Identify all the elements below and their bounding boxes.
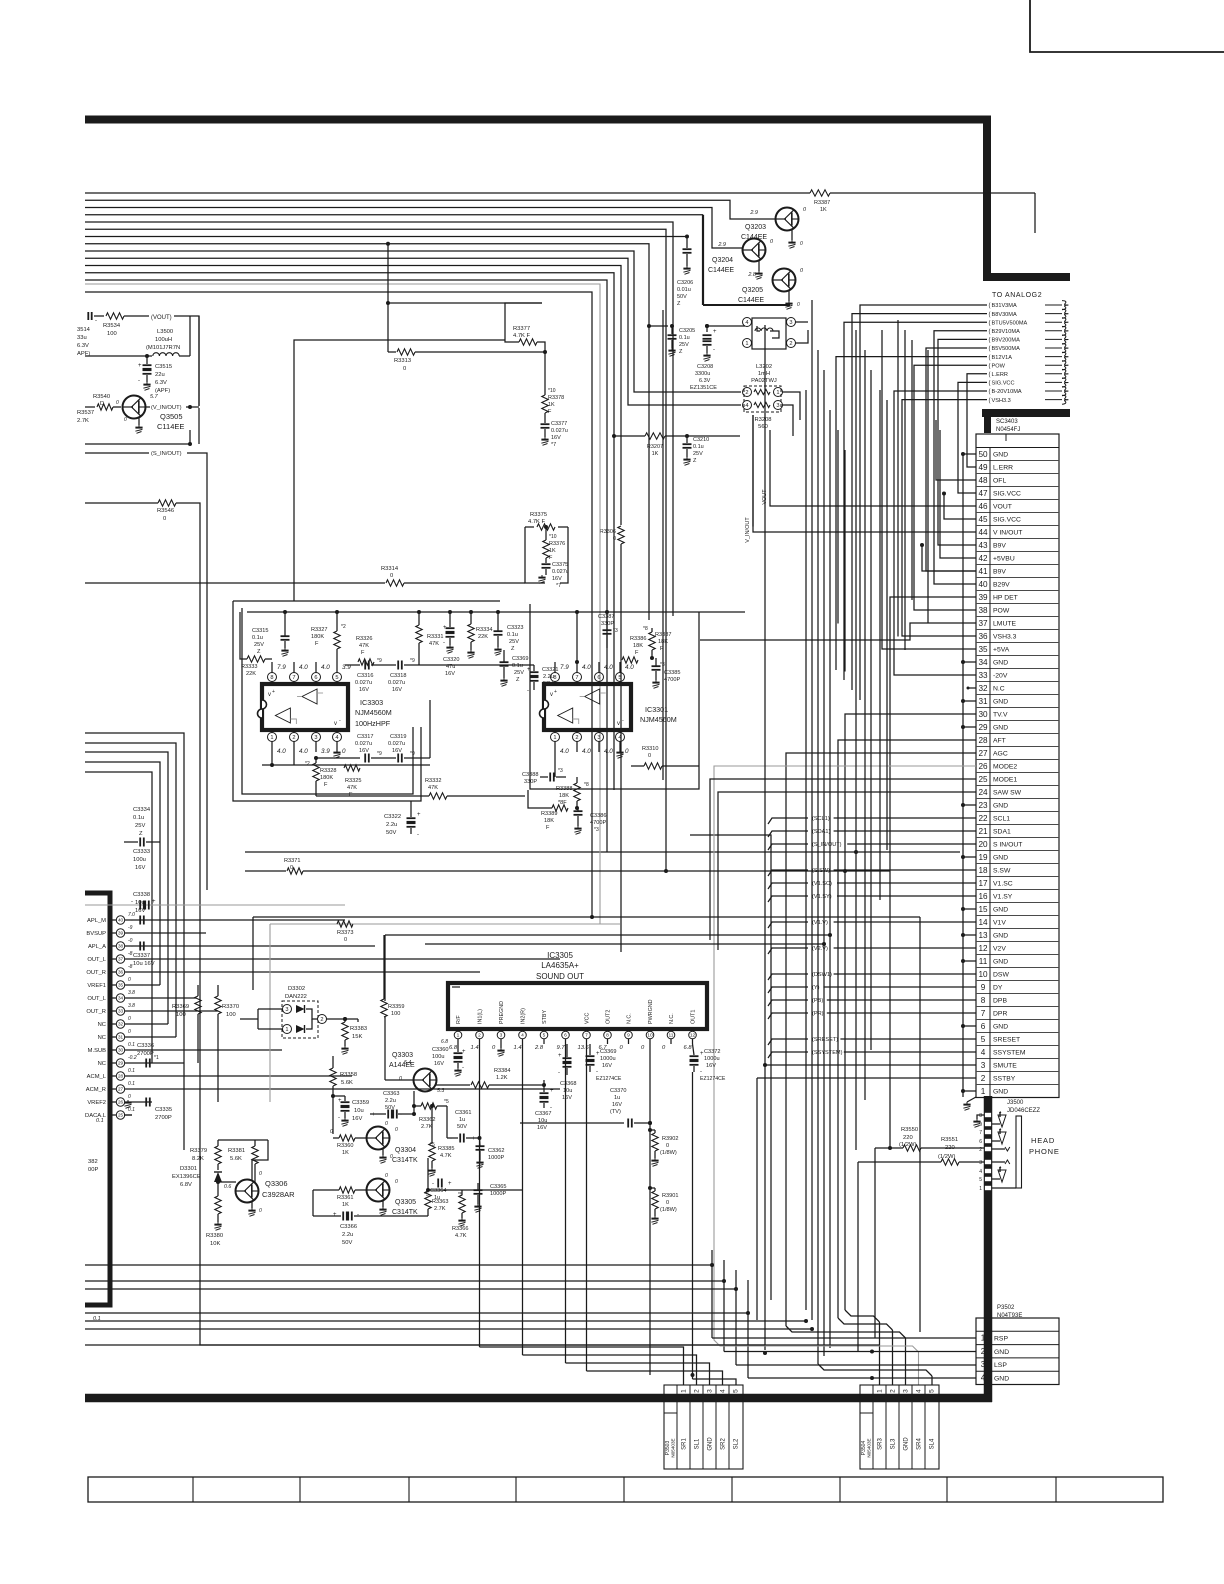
svg-text:42: 42 [978, 554, 988, 563]
svg-text:Z: Z [257, 649, 261, 655]
headphone pin 6 [985, 1138, 992, 1143]
svg-text:(V1.V): (V1.V) [812, 920, 828, 926]
wire pin27 AGC [786, 753, 976, 1326]
svg-text:SL1: SL1 [695, 1438, 701, 1449]
svg-text:25V: 25V [509, 639, 519, 645]
svg-text:VREF2: VREF2 [87, 1100, 106, 1106]
svg-text:B31V3MA: B31V3MA [992, 303, 1017, 309]
svg-text:F: F [660, 646, 664, 652]
transistor Q3303 [414, 1069, 437, 1092]
ground headphone pin8 [977, 1115, 984, 1119]
svg-text:P3502: P3502 [997, 1305, 1015, 1311]
net (V1.SC) to pin 17 [768, 883, 808, 889]
svg-text:SR2: SR2 [721, 1438, 727, 1450]
svg-text:-: - [462, 1065, 464, 1071]
svg-text:1K: 1K [548, 402, 555, 408]
svg-text:SDA1: SDA1 [993, 829, 1011, 836]
svg-text:R3389: R3389 [541, 811, 557, 817]
svg-text:3: 3 [981, 1360, 986, 1369]
ground IC3305 pin3 [500, 1044, 502, 1048]
IC3303 pin 8 [271, 681, 273, 684]
svg-text:220: 220 [945, 1145, 955, 1151]
svg-text:5: 5 [979, 1177, 982, 1183]
svg-text:180K: 180K [320, 775, 333, 781]
svg-text:(: ( [989, 329, 991, 335]
svg-text:HEAD: HEAD [1031, 1136, 1055, 1145]
bus wire 9 (to L3202 pin2) [85, 251, 741, 392]
svg-text:1.4: 1.4 [471, 1045, 479, 1051]
wire pins row [430, 664, 534, 666]
svg-text:2.2u: 2.2u [386, 822, 397, 828]
svg-text:LSP: LSP [994, 1362, 1007, 1369]
svg-text:R3387: R3387 [814, 200, 830, 206]
svg-text:1: 1 [981, 1087, 986, 1096]
net (S.SW) to pin 18 [768, 870, 808, 876]
svg-text:(1/2W): (1/2W) [899, 1142, 916, 1148]
svg-text:28: 28 [978, 736, 988, 745]
svg-text:(1/2W): (1/2W) [938, 1154, 955, 1160]
speaker symbol 3 [992, 1178, 1000, 1180]
svg-text:0.1u: 0.1u [679, 335, 690, 341]
IC3301 pin 2 [576, 730, 578, 733]
svg-text:PREGND: PREGND [499, 1001, 505, 1024]
svg-text:4.0: 4.0 [604, 664, 613, 671]
svg-text:GND: GND [993, 660, 1008, 667]
svg-text:(S_IN/OUT): (S_IN/OUT) [812, 842, 842, 848]
svg-text:*9: *9 [377, 751, 382, 757]
svg-text:R3381: R3381 [228, 1148, 245, 1154]
svg-text:2700P: 2700P [155, 1115, 172, 1121]
svg-text:C3336: C3336 [137, 1043, 154, 1049]
svg-text:3: 3 [314, 735, 317, 741]
svg-text:v: v [268, 692, 271, 698]
wire D3301 to Q3306 [218, 1181, 236, 1183]
svg-text:0: 0 [128, 1029, 131, 1035]
transistor Q3306 [236, 1180, 259, 1203]
wire left feeder 1 [85, 733, 184, 1150]
svg-text:Z: Z [516, 677, 520, 683]
svg-text:N.C: N.C [993, 686, 1005, 693]
svg-text:0: 0 [399, 1076, 402, 1082]
svg-text:-: - [450, 1136, 452, 1142]
wire left feeder 2 [85, 743, 176, 1037]
svg-text:C314TK: C314TK [392, 1209, 418, 1216]
svg-text:8: 8 [270, 675, 273, 681]
svg-text:40: 40 [978, 580, 988, 589]
svg-text:R3314: R3314 [381, 566, 399, 572]
svg-text:*1: *1 [154, 1055, 159, 1061]
net (S_IN/OUT) [85, 452, 149, 454]
transistor Q3304 [367, 1127, 390, 1150]
bus wire 1 (to R3387) [85, 192, 810, 194]
IC3303 pin 4 [336, 730, 338, 733]
svg-text:4700P: 4700P [590, 820, 606, 826]
svg-text:+5VA: +5VA [993, 647, 1010, 654]
wire IC3301 bottom rail bend [690, 835, 771, 1300]
svg-text:32: 32 [118, 1022, 124, 1027]
svg-text:15: 15 [978, 905, 988, 914]
svg-text:DY: DY [993, 985, 1003, 992]
svg-text:-: - [443, 640, 445, 646]
svg-text:7: 7 [575, 675, 578, 681]
svg-text:GND: GND [993, 855, 1008, 862]
svg-text:1u: 1u [434, 1195, 440, 1201]
svg-text:F: F [349, 792, 353, 798]
svg-text:10u: 10u [135, 900, 145, 906]
svg-text:SRESET: SRESET [993, 1037, 1020, 1044]
svg-text:IC3301: IC3301 [645, 705, 668, 714]
svg-text:4.7K F: 4.7K F [528, 519, 546, 525]
svg-text:4.0: 4.0 [604, 748, 613, 755]
svg-text:-20V: -20V [993, 673, 1008, 680]
svg-text:R3366: R3366 [452, 1226, 468, 1232]
svg-text:C3365: C3365 [490, 1184, 506, 1190]
svg-text:B8V30MA: B8V30MA [992, 312, 1017, 318]
svg-text:2.9: 2.9 [717, 242, 726, 248]
svg-text:+: + [558, 1053, 562, 1059]
svg-text:2: 2 [320, 1017, 323, 1023]
IC3301 pin 1 [554, 730, 556, 733]
svg-text:2.7K: 2.7K [434, 1206, 446, 1212]
headphone bracket [992, 1187, 1016, 1189]
svg-text:16V: 16V [135, 908, 145, 914]
svg-text:R3207: R3207 [647, 444, 663, 450]
svg-text:+: + [713, 329, 717, 335]
svg-text:20: 20 [978, 840, 988, 849]
svg-text:4: 4 [720, 1389, 727, 1393]
wire pin28 AFT [838, 740, 976, 1318]
net (DSW1) to pin 10 [768, 974, 808, 980]
svg-text:*10: *10 [548, 388, 556, 394]
svg-text:1u: 1u [459, 1117, 465, 1123]
svg-text:3: 3 [285, 1007, 288, 1013]
wires IC3305 pins to P3503 [480, 1347, 684, 1385]
svg-text:9: 9 [627, 1033, 630, 1039]
svg-text:(: ( [989, 398, 991, 404]
svg-text:B9V: B9V [993, 569, 1006, 576]
svg-text:R3388: R3388 [556, 786, 572, 792]
svg-text:Q3304: Q3304 [395, 1147, 416, 1154]
svg-text:J3500: J3500 [1007, 1100, 1024, 1106]
frame corner box top-right [1030, 0, 1224, 52]
svg-text:4: 4 [521, 1033, 524, 1039]
svg-text:R3313: R3313 [394, 358, 411, 364]
svg-text:10: 10 [647, 1033, 653, 1039]
svg-text:GND: GND [993, 907, 1008, 914]
svg-text:0.1u: 0.1u [133, 815, 144, 821]
svg-text:1.4: 1.4 [514, 1045, 522, 1051]
svg-text:9.7: 9.7 [557, 1045, 566, 1051]
svg-text:2: 2 [789, 341, 792, 347]
svg-text:OUT_R: OUT_R [86, 1009, 106, 1015]
wire pin26 MODE2 (gray) [714, 766, 976, 1278]
svg-text:-: - [131, 944, 133, 950]
svg-text:(SRESET): (SRESET) [812, 1037, 838, 1043]
wire L3201 pin3 [795, 321, 808, 323]
svg-text:NJM4560M: NJM4560M [640, 715, 677, 724]
svg-text:50V: 50V [677, 294, 687, 300]
svg-text:VREF1: VREF1 [87, 983, 106, 989]
svg-text:0.1: 0.1 [128, 1042, 135, 1048]
svg-text:R3325: R3325 [345, 778, 361, 784]
svg-text:GND: GND [994, 1349, 1009, 1356]
IC3301 pin 3 [598, 730, 600, 733]
svg-text:10: 10 [978, 970, 988, 979]
capacitor C3375 [545, 558, 547, 563]
svg-text:C3316: C3316 [357, 673, 373, 679]
connector P3503 table [664, 1385, 743, 1469]
IC3305 box [448, 983, 707, 1029]
contact V mark [992, 1148, 1005, 1150]
svg-text:-8: -8 [128, 964, 133, 970]
svg-text:4: 4 [618, 735, 621, 741]
ground Q3305 [382, 1201, 384, 1207]
wire R3550 feed [874, 1148, 876, 1338]
svg-text:R3375: R3375 [530, 512, 547, 518]
svg-text:V2V: V2V [993, 946, 1006, 953]
svg-text:GND: GND [993, 699, 1008, 706]
svg-text:6.8: 6.8 [441, 1039, 448, 1045]
IC3301 pin 4 [619, 730, 621, 733]
svg-text:R3373: R3373 [337, 930, 353, 936]
junction dots V+ rail [417, 610, 421, 614]
wire Q3306 collector up [251, 1160, 253, 1180]
svg-text:4: 4 [335, 735, 338, 741]
IC edge (left connector, partial) [85, 891, 110, 896]
svg-text:0: 0 [259, 1208, 262, 1214]
svg-text:0: 0 [403, 366, 406, 372]
svg-text:8: 8 [981, 996, 986, 1005]
svg-text:F: F [315, 641, 319, 647]
thick bus bar right vertical [983, 116, 991, 281]
svg-text:STBY: STBY [542, 1010, 548, 1024]
svg-text:RSP: RSP [994, 1335, 1008, 1342]
svg-text:37: 37 [978, 619, 988, 628]
svg-text:(: ( [989, 381, 991, 387]
svg-text:(: ( [989, 320, 991, 326]
svg-text:HP DET: HP DET [993, 595, 1018, 602]
svg-text:35: 35 [118, 983, 124, 988]
bus wire 10 (to L3202 pin4) [85, 258, 741, 405]
svg-text:R3550: R3550 [901, 1127, 918, 1133]
capacitor C3210 [685, 434, 689, 438]
IC3303 pin 2 [293, 730, 295, 733]
svg-text:47: 47 [978, 489, 988, 498]
wire IC3303 outer loop [233, 601, 421, 801]
svg-text:(: ( [989, 372, 991, 378]
svg-text:GND: GND [994, 1375, 1009, 1382]
svg-text:R3359: R3359 [388, 1004, 404, 1010]
inductor L3500 [153, 353, 179, 356]
svg-text:GND: GND [993, 1024, 1008, 1031]
svg-text:SIG.VCC: SIG.VCC [993, 491, 1021, 498]
svg-text:V_IN/OUT: V_IN/OUT [745, 517, 751, 543]
svg-text:(: ( [989, 389, 991, 395]
svg-text:0: 0 [648, 753, 651, 759]
svg-text:R/F: R/F [456, 1015, 462, 1024]
svg-text:B5V500MA: B5V500MA [992, 346, 1021, 352]
svg-text:NC: NC [98, 1061, 106, 1067]
thick bottom bus bar [85, 1394, 992, 1403]
svg-text:(V2.V): (V2.V) [812, 946, 828, 952]
wire pin7 VCC down [586, 1044, 588, 1371]
svg-text:SL4: SL4 [930, 1438, 936, 1449]
svg-text:0: 0 [385, 1121, 388, 1127]
svg-text:-8: -8 [128, 951, 133, 957]
svg-text:SMUTE: SMUTE [993, 1063, 1017, 1070]
svg-text:C3337: C3337 [133, 953, 150, 959]
svg-text:S.SW: S.SW [993, 868, 1011, 875]
svg-text:29: 29 [978, 723, 988, 732]
svg-text:R3362: R3362 [419, 1117, 435, 1123]
svg-text:-: - [400, 1112, 402, 1118]
svg-text:0.027u: 0.027u [388, 741, 405, 747]
svg-text:25V: 25V [254, 642, 264, 648]
svg-text:C3320: C3320 [443, 657, 459, 663]
wire trunk bundle (vertical runs) [752, 415, 754, 527]
capacitors C3316 C3318 row [345, 664, 360, 666]
svg-text:6: 6 [979, 1139, 982, 1145]
svg-text:7: 7 [981, 1009, 986, 1018]
svg-text:2.9: 2.9 [749, 210, 758, 216]
svg-text:2: 2 [745, 390, 748, 396]
svg-text:2700P: 2700P [137, 1051, 154, 1057]
svg-text:7.9: 7.9 [560, 664, 569, 671]
svg-text:19: 19 [978, 853, 988, 862]
svg-text:0.1: 0.1 [96, 1118, 104, 1124]
svg-text:OUT2: OUT2 [606, 1010, 612, 1024]
svg-text:4.0: 4.0 [560, 748, 569, 755]
svg-text:LMUTE: LMUTE [993, 621, 1017, 628]
op-amp IC3303 [262, 684, 348, 730]
svg-text:(1/8W): (1/8W) [660, 1150, 677, 1156]
headphone pin 1 [985, 1185, 992, 1190]
resistor R3306 [618, 526, 624, 544]
svg-text:-: - [131, 899, 133, 905]
svg-text:4: 4 [745, 403, 748, 409]
svg-text:C3388: C3388 [522, 772, 538, 778]
svg-text:C144EE: C144EE [738, 297, 764, 304]
bus wire 13 (long horizontal mid) [85, 280, 607, 852]
svg-text:Q3204: Q3204 [712, 257, 733, 264]
svg-text:B29V10MA: B29V10MA [992, 329, 1021, 335]
svg-text:L3500: L3500 [157, 329, 173, 335]
svg-text:8.2K: 8.2K [192, 1156, 204, 1162]
wire pin37 LMUTE [700, 623, 976, 640]
svg-text:NJM4560M: NJM4560M [355, 708, 392, 717]
svg-text:SL3: SL3 [891, 1438, 897, 1449]
svg-text:25V: 25V [693, 451, 703, 457]
net (SDA1) to pin 21 [768, 831, 808, 837]
wire left feeder 5 [85, 772, 152, 1063]
IC3301 pin 5 [619, 681, 621, 684]
wire gray vertical x270 [269, 924, 271, 1102]
svg-text:R3537: R3537 [77, 410, 94, 416]
svg-text:C3315: C3315 [252, 628, 268, 634]
svg-text:2.2u: 2.2u [342, 1232, 353, 1238]
svg-text:6: 6 [597, 675, 600, 681]
svg-text:26: 26 [978, 762, 988, 771]
wire rail 917 [253, 916, 920, 918]
svg-text:5: 5 [543, 1033, 546, 1039]
svg-text:+: + [472, 1136, 476, 1142]
wire left feeder 4 [85, 762, 160, 985]
svg-text:4: 4 [916, 1389, 923, 1393]
thick bus bar stub to analog block [983, 273, 1070, 281]
svg-text:SR3: SR3 [878, 1438, 884, 1450]
svg-text:22: 22 [978, 814, 988, 823]
svg-text:2.8: 2.8 [534, 1045, 544, 1051]
wire pin2 SSTBY [757, 1077, 976, 1079]
svg-text:JD046CEZZ: JD046CEZZ [1007, 1108, 1040, 1114]
svg-text:2: 2 [292, 735, 295, 741]
svg-text:S IN/OUT: S IN/OUT [993, 842, 1022, 849]
svg-text:49: 49 [978, 463, 988, 472]
svg-text:F: F [635, 650, 639, 656]
svg-text:(M101J7R7N: (M101J7R7N [146, 345, 180, 351]
svg-text:0.1u: 0.1u [252, 635, 263, 641]
svg-text:VCC: VCC [585, 1013, 591, 1024]
svg-text:100: 100 [176, 1012, 186, 1018]
svg-text:1: 1 [745, 341, 748, 347]
svg-text:36: 36 [118, 970, 124, 975]
svg-text:34: 34 [978, 658, 988, 667]
svg-text:OUT_L: OUT_L [87, 957, 106, 963]
svg-text:EZ1351CE: EZ1351CE [690, 385, 717, 391]
svg-text:0.1: 0.1 [128, 1107, 135, 1113]
svg-text:0.01u: 0.01u [677, 287, 691, 293]
svg-text:-: - [131, 918, 133, 924]
net (SCL1) to pin 22 [768, 818, 808, 824]
wire pin48 OFL [936, 420, 976, 480]
thick vertical bar below connector (headphone trunk) [984, 1096, 993, 1402]
svg-text:7: 7 [585, 1033, 588, 1039]
svg-text:1K: 1K [342, 1150, 349, 1156]
svg-text:44: 44 [978, 528, 988, 537]
svg-text:1000u: 1000u [704, 1056, 720, 1062]
svg-text:10u: 10u [563, 1088, 572, 1094]
svg-text:N.C.: N.C. [669, 1013, 675, 1024]
svg-text:4.7K: 4.7K [455, 1233, 467, 1239]
svg-text:C3338: C3338 [133, 892, 150, 898]
svg-text:0: 0 [128, 1016, 131, 1022]
svg-text:50V: 50V [386, 830, 396, 836]
net (SSYSTEM) to pin 4 [768, 1052, 808, 1058]
svg-text:45: 45 [978, 515, 988, 524]
inductor block L3201 [752, 318, 786, 349]
wire pin30 TV.V [845, 714, 976, 1310]
svg-text:C3335: C3335 [155, 1107, 172, 1113]
resistor R3387 [810, 190, 830, 196]
svg-text:8: 8 [553, 675, 556, 681]
svg-text:-0.2: -0.2 [128, 1055, 137, 1061]
svg-text:DPR: DPR [993, 1011, 1007, 1018]
svg-text:*2: *2 [305, 761, 310, 767]
svg-text:ACM_R: ACM_R [86, 1087, 106, 1093]
ground IC3303 pin4 [336, 750, 338, 752]
svg-text:3.8: 3.8 [128, 1003, 135, 1009]
svg-text:(V1.SC): (V1.SC) [812, 881, 832, 887]
svg-text:4.7K F: 4.7K F [513, 333, 531, 339]
svg-text:6.8: 6.8 [449, 1045, 458, 1051]
svg-text:5.7: 5.7 [150, 394, 159, 400]
svg-text:8: 8 [979, 1113, 982, 1119]
bus wire 3 (Q3204 base) [85, 208, 743, 249]
svg-text:0.027u: 0.027u [355, 680, 372, 686]
svg-text:18K: 18K [633, 643, 643, 649]
svg-text:-: - [596, 1069, 598, 1075]
svg-text:Q3306: Q3306 [265, 1179, 288, 1188]
